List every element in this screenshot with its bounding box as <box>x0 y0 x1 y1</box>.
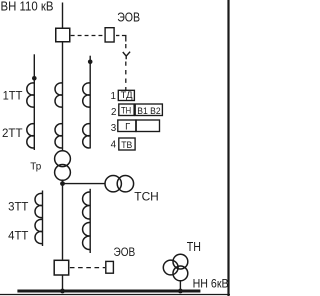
svg-text:ЭОВ: ЭОВ <box>114 245 136 259</box>
wire main line to busbar <box>62 276 64 292</box>
svg-text:ТН: ТН <box>121 105 131 116</box>
voltage transformer ТН circle top <box>173 254 188 269</box>
transformer Тр circle 1 <box>55 151 71 167</box>
list row 1 box ТД <box>118 90 134 100</box>
node dot on left CT line <box>32 76 37 81</box>
transformer Тр circle 2 <box>55 165 71 181</box>
CT winding bottom-right group 2 <box>83 222 91 249</box>
CT 1ТТ winding left line group 1 <box>27 83 35 107</box>
svg-text:В1 В2: В1 В2 <box>137 105 160 116</box>
list row 2 box ТН <box>119 104 134 116</box>
voltage transformer ТН circle left <box>163 260 178 275</box>
svg-text:2: 2 <box>111 107 116 118</box>
transformer ТСН circle 1 <box>105 176 121 192</box>
frame bottom border <box>0 294 230 296</box>
dashed link ЭОВ to corner <box>116 35 119 37</box>
svg-text:ВН 110 кВ: ВН 110 кВ <box>1 0 54 14</box>
wire main line through CT section <box>62 43 64 152</box>
list row 3 box Г <box>118 120 136 132</box>
voltage transformer ТН circle bottom <box>173 266 188 281</box>
svg-text:ТД: ТД <box>121 90 134 100</box>
svg-text:4: 4 <box>111 140 117 151</box>
list row 2 box В1 В2 <box>135 104 162 116</box>
dashed link breaker to ЭОВ <box>71 35 105 37</box>
list row 4 box ТВ <box>119 138 135 150</box>
svg-text:4ТТ: 4ТТ <box>8 229 29 243</box>
CT winding right line group 2 <box>83 124 91 148</box>
svg-text:Г: Г <box>125 121 130 132</box>
dashed corner piece <box>122 36 126 42</box>
arrow on dashed link <box>123 52 130 60</box>
CT winding right line group 1 <box>83 83 91 107</box>
svg-text:ТН: ТН <box>187 239 201 254</box>
CT 4ТТ winding <box>35 219 43 243</box>
breaker В1 (top square) <box>56 28 70 42</box>
dashed link breaker to ЭОВ (bottom) <box>70 267 105 269</box>
node dot main line on busbar <box>60 289 65 294</box>
svg-text:1ТТ: 1ТТ <box>3 89 23 103</box>
wire main line below transformer <box>62 180 64 259</box>
svg-text:ТСН: ТСН <box>134 190 159 204</box>
svg-text:Тр: Тр <box>30 161 41 173</box>
node junction dot below transformer <box>60 181 65 186</box>
transformer ТСН circle 2 <box>117 176 133 192</box>
svg-text:1: 1 <box>111 91 116 102</box>
CT 3ТТ winding <box>35 193 43 217</box>
wire to ТСН <box>63 183 106 185</box>
busbar НН 6кВ <box>17 290 200 293</box>
wire main line top <box>62 3 64 28</box>
list row 3 empty box <box>136 120 159 132</box>
CT 2ТТ winding left line group 2 <box>27 124 35 148</box>
dashed link down to list <box>125 44 127 90</box>
wire right CT line <box>89 56 91 149</box>
svg-text:3ТТ: 3ТТ <box>8 199 29 213</box>
breaker В2 (bottom square) <box>54 260 68 275</box>
svg-text:3: 3 <box>111 123 117 134</box>
drive ЭОВ box (top) <box>105 28 114 42</box>
wire left CT line <box>33 54 35 150</box>
CT winding bottom-right group 1 <box>83 192 91 219</box>
wire ТН to busbar <box>179 281 181 291</box>
svg-text:2ТТ: 2ТТ <box>2 126 23 140</box>
svg-text:ТВ: ТВ <box>121 139 132 150</box>
CT winding on main line group 2 <box>55 124 63 148</box>
wire bottom-left CT line <box>42 191 44 247</box>
svg-text:НН 6кВ: НН 6кВ <box>193 278 229 290</box>
frame right border <box>227 0 229 296</box>
CT winding on main line group 1 <box>55 83 63 107</box>
node dot on right CT line <box>88 60 93 65</box>
node dot ТН on busbar <box>178 289 183 294</box>
drive ЭОВ box (bottom) <box>106 261 114 273</box>
svg-text:ЭОВ: ЭОВ <box>117 10 140 24</box>
wire bottom-right CT line <box>89 189 91 253</box>
